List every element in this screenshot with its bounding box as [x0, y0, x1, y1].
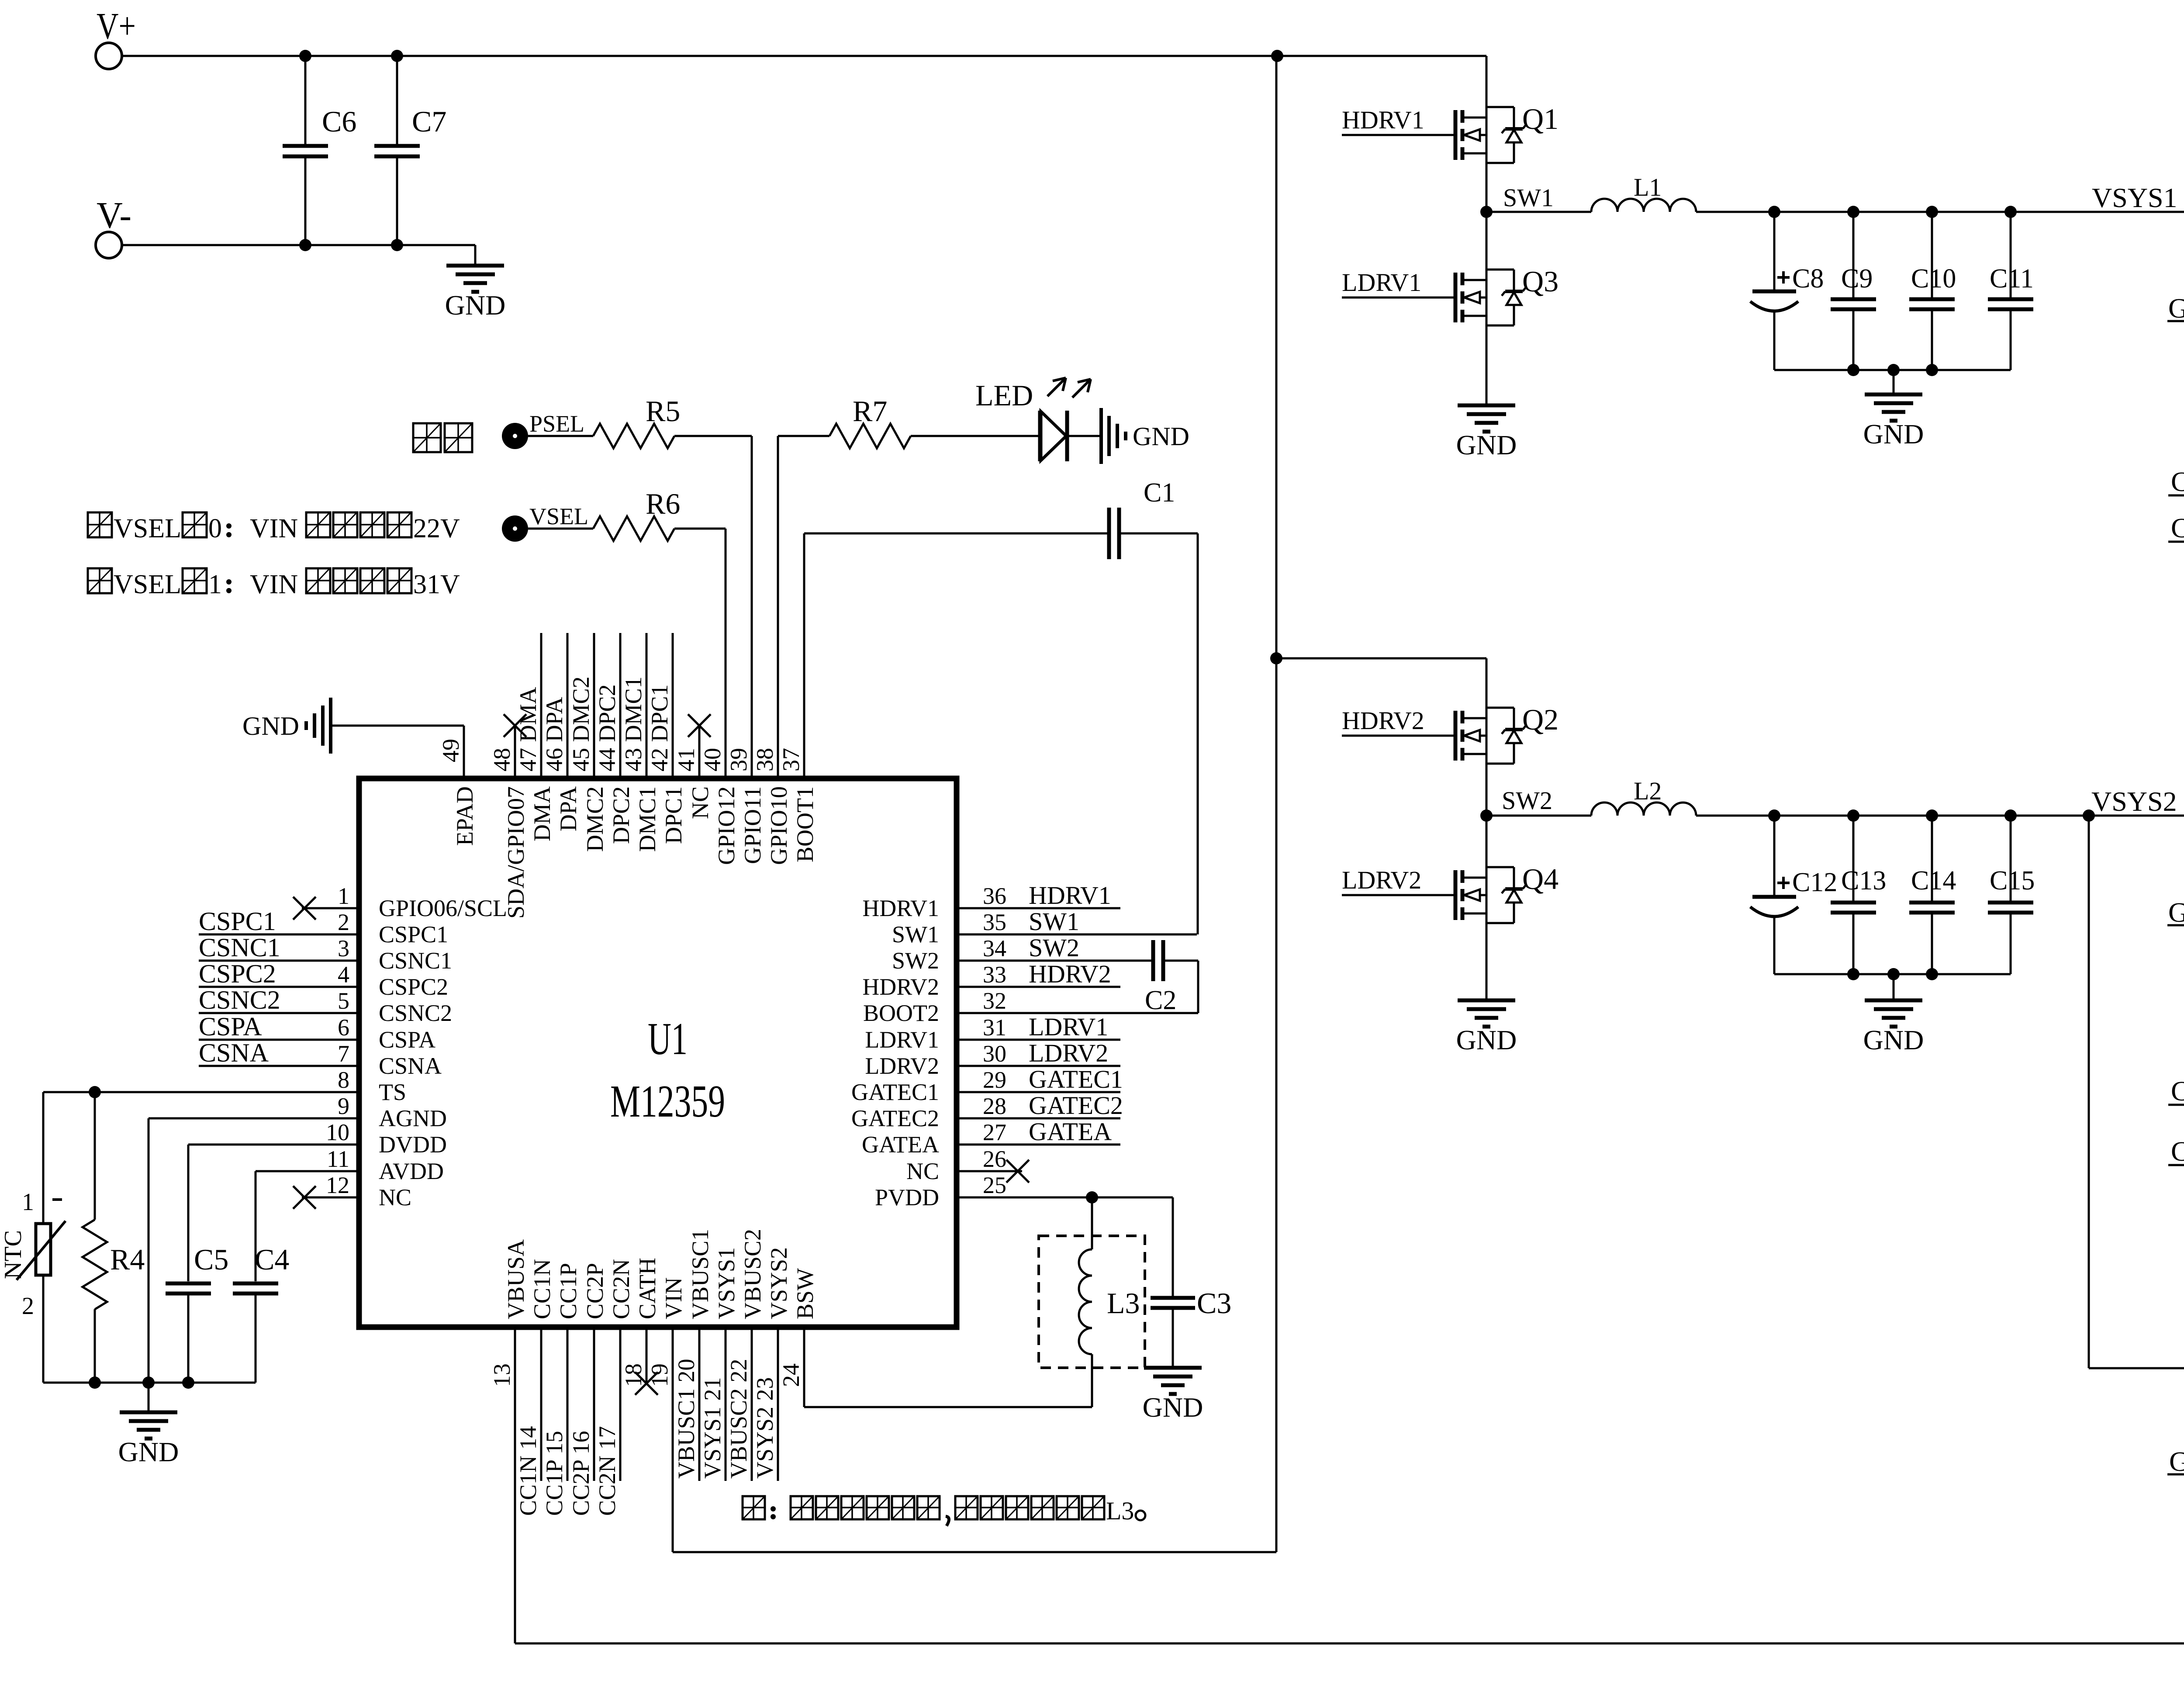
- svg-text:C11: C11: [1990, 264, 2034, 294]
- svg-text:30: 30: [983, 1041, 1006, 1067]
- svg-text:EPAD: EPAD: [452, 786, 478, 846]
- wire Q1 drain: [1486, 56, 1488, 107]
- wire VIN bus: [673, 56, 1276, 1552]
- svg-text:13: 13: [489, 1363, 515, 1387]
- net DMC1 stub (pin 43): [620, 633, 646, 776]
- svg-text:Q3: Q3: [1522, 265, 1559, 298]
- svg-text:DMA: DMA: [529, 786, 555, 841]
- wire Q4 source: [1486, 923, 1488, 1000]
- ground GND pvdd: [1143, 1368, 1203, 1423]
- pad PSEL: [502, 423, 528, 449]
- svg-text:GATEC1: GATEC1: [851, 1079, 939, 1105]
- svg-text:CC1N 14: CC1N 14: [515, 1426, 541, 1516]
- terminal V-: [96, 194, 131, 258]
- svg-text:6: 6: [338, 1014, 349, 1041]
- ground GND q3: [1456, 405, 1517, 460]
- svg-text:VIN: VIN: [250, 514, 298, 543]
- svg-text:LDRV1: LDRV1: [865, 1027, 939, 1053]
- net CC2P stub (pin 16): [568, 1330, 594, 1516]
- svg-text:VIN: VIN: [660, 1277, 687, 1319]
- U1 top pin names and EPAD: [452, 786, 818, 919]
- svg-text:43 DMC1: 43 DMC1: [620, 676, 646, 771]
- svg-text:GATEC1: GATEC1: [1029, 1065, 1123, 1093]
- wire VSYS2 rail: [1696, 809, 2184, 822]
- svg-text:GPIO11: GPIO11: [740, 786, 766, 864]
- net CSNC1: [2168, 410, 2184, 497]
- svg-text:C3: C3: [1197, 1287, 1231, 1320]
- pin 41 NC stub: [673, 714, 711, 776]
- svg-text:35: 35: [983, 909, 1006, 935]
- pin 12 NC stub: [293, 1186, 356, 1209]
- capacitor C6: [283, 56, 356, 245]
- resistor R5: [593, 394, 680, 448]
- wire VSEL: [528, 503, 593, 529]
- net CC2N stub (pin 17): [594, 1330, 620, 1516]
- net HDRV2 gate wire: [1342, 706, 1455, 736]
- wire pin 19 VIN: [646, 1330, 673, 1552]
- svg-text:C5: C5: [194, 1243, 228, 1276]
- svg-text:V-: V-: [97, 194, 131, 236]
- svg-text:40: 40: [699, 748, 726, 771]
- svg-text:VBUSC2: VBUSC2: [740, 1229, 766, 1319]
- svg-text:DPA: DPA: [555, 786, 581, 831]
- net DMA stub (pin 47): [515, 633, 541, 776]
- IC U1 (M12359): [359, 778, 957, 1327]
- svg-text:36: 36: [983, 883, 1006, 909]
- transistor Q3: [1455, 265, 1559, 325]
- svg-text:31V: 31V: [413, 570, 460, 599]
- net CSPC1 (pin 2): [199, 907, 356, 936]
- net VSYS1 label: [2092, 182, 2177, 213]
- svg-text:VSYS1 21: VSYS1 21: [699, 1377, 726, 1479]
- wire VSYS1 rail: [1696, 206, 2184, 218]
- svg-text:44 DPC2: 44 DPC2: [594, 684, 620, 771]
- svg-text:CSNC2: CSNC2: [2171, 1076, 2184, 1107]
- wire Q2 source to SW2: [1486, 764, 1488, 816]
- svg-text:U1: U1: [648, 1013, 688, 1064]
- svg-text:C9: C9: [1841, 264, 1873, 294]
- label yuliu (reserved): [413, 423, 472, 452]
- svg-text:PVDD: PVDD: [875, 1184, 939, 1210]
- note VSEL=1: [88, 568, 460, 599]
- ground GND caps1: [1863, 370, 1924, 450]
- svg-text:LDRV2: LDRV2: [1342, 866, 1421, 894]
- net CSPC1: [2168, 410, 2184, 543]
- svg-text:GND: GND: [1456, 1024, 1517, 1055]
- svg-text:3: 3: [338, 935, 349, 961]
- ground GND analog: [118, 1383, 179, 1467]
- svg-text:GND: GND: [445, 290, 506, 321]
- inductor L3 (dashed option box): [1039, 1236, 1145, 1368]
- wire pin37 to C1: [804, 533, 1108, 776]
- svg-text:SW1: SW1: [892, 921, 939, 948]
- net VSYS1 stub (pin 21): [699, 1330, 726, 1481]
- svg-text:CC1N: CC1N: [529, 1259, 555, 1319]
- svg-text:SDA/GPIO07: SDA/GPIO07: [503, 786, 529, 919]
- svg-text:49: 49: [438, 739, 464, 762]
- svg-text:GATEC2: GATEC2: [1029, 1091, 1123, 1120]
- ground GND q4: [1456, 1000, 1517, 1055]
- svg-text:7: 7: [338, 1041, 349, 1067]
- svg-text:L3: L3: [1106, 1497, 1134, 1525]
- svg-text:CSNA: CSNA: [379, 1053, 442, 1079]
- svg-text:C1: C1: [1144, 478, 1175, 508]
- wire pin 13 VBUSA: [489, 1330, 515, 1643]
- svg-text:GATEC2: GATEC2: [2168, 897, 2184, 928]
- svg-text:AVDD: AVDD: [379, 1158, 444, 1184]
- LED D1: [975, 378, 1091, 461]
- svg-text:DMC2: DMC2: [582, 786, 608, 852]
- svg-text:C15: C15: [1990, 866, 2035, 896]
- inductor L1: [1591, 173, 1696, 212]
- svg-text:NC: NC: [906, 1158, 939, 1184]
- svg-text:10: 10: [326, 1119, 349, 1145]
- svg-text:26: 26: [983, 1146, 1006, 1172]
- svg-text:CSNC1: CSNC1: [379, 948, 452, 974]
- svg-text:CSNA: CSNA: [199, 1038, 269, 1067]
- transistor Q1: [1455, 102, 1559, 163]
- net VBUSC1 stub (pin 20): [673, 1330, 699, 1481]
- capacitor C14: [1909, 816, 1956, 974]
- svg-text:VBUSC1: VBUSC1: [687, 1229, 713, 1319]
- svg-text:PSEL: PSEL: [529, 411, 584, 437]
- svg-text:BOOT1: BOOT1: [792, 786, 818, 862]
- svg-text:VIN: VIN: [250, 570, 298, 599]
- svg-text:VBUSA: VBUSA: [503, 1239, 529, 1319]
- svg-text:GND: GND: [1133, 422, 1189, 451]
- net CSNC2: [2168, 1013, 2184, 1107]
- svg-text:C12: C12: [1792, 868, 1837, 897]
- net CSNC2 (pin 5): [199, 986, 356, 1014]
- svg-text:SW1: SW1: [1029, 907, 1079, 936]
- pad VSEL: [502, 515, 528, 542]
- svg-text:SW2: SW2: [892, 948, 939, 974]
- svg-text:CSPC1: CSPC1: [379, 921, 448, 948]
- svg-text:TS: TS: [379, 1079, 406, 1105]
- net CSNC1 (pin 3): [199, 933, 356, 962]
- wire Q3 source: [1486, 325, 1488, 405]
- svg-text:GND: GND: [1863, 418, 1924, 450]
- note VSEL=0: [88, 512, 460, 543]
- transistor Q4: [1455, 862, 1559, 923]
- svg-text:GND: GND: [1143, 1392, 1203, 1423]
- svg-text:46 DPA: 46 DPA: [541, 697, 567, 771]
- svg-text:R7: R7: [853, 394, 887, 428]
- wire analog gnd rail: [43, 1376, 256, 1389]
- svg-text:GATEA: GATEA: [1029, 1117, 1112, 1146]
- wire VBUSA bus: [515, 1643, 2184, 1645]
- svg-text:8: 8: [338, 1067, 349, 1093]
- wire R7 to LED: [911, 435, 1040, 437]
- pin 38 number: [752, 748, 778, 771]
- svg-text:BSW: BSW: [792, 1268, 818, 1319]
- svg-text:CSNC1: CSNC1: [2171, 466, 2184, 497]
- net CSPA (pin 6): [199, 1012, 356, 1041]
- svg-text:47 DMA: 47 DMA: [515, 687, 541, 771]
- capacitor C3: [1151, 1197, 1231, 1368]
- wire pin 24 BSW: [778, 1330, 804, 1407]
- svg-text:R4: R4: [110, 1243, 145, 1276]
- svg-text:BOOT2: BOOT2: [863, 1000, 939, 1026]
- svg-text:4: 4: [338, 961, 349, 988]
- net CC1N stub (pin 14): [515, 1330, 541, 1516]
- capacitor C15: [1988, 816, 2035, 974]
- svg-text:VSEL: VSEL: [529, 503, 588, 529]
- svg-text:C13: C13: [1841, 866, 1886, 896]
- node SW2: [1480, 786, 1552, 822]
- svg-text:VSYS1: VSYS1: [2092, 182, 2177, 213]
- svg-text:LDRV2: LDRV2: [1029, 1039, 1108, 1067]
- pin 18 CATH stub: [620, 1330, 658, 1395]
- svg-text:LDRV1: LDRV1: [1029, 1013, 1108, 1041]
- capacitor C1: [1109, 478, 1175, 559]
- svg-text:41: 41: [673, 748, 699, 771]
- net LDRV1 stub (pin 31): [959, 1013, 1120, 1041]
- wire VSYS2 to Q7: [2089, 816, 2184, 1368]
- svg-text:VSEL: VSEL: [114, 570, 181, 599]
- svg-text:Q1: Q1: [1522, 102, 1559, 135]
- net LDRV2 stub (pin 30): [959, 1039, 1120, 1067]
- svg-text:2: 2: [22, 1293, 34, 1320]
- pin 37 number: [778, 748, 804, 771]
- svg-text:R5: R5: [646, 394, 680, 428]
- svg-text:CSPC2: CSPC2: [2171, 1136, 2184, 1167]
- resistor R7: [829, 394, 911, 448]
- svg-text:1: 1: [338, 883, 349, 909]
- pin 40 number: [699, 748, 726, 771]
- svg-text:31: 31: [983, 1014, 1006, 1041]
- svg-text:1: 1: [208, 570, 222, 599]
- U1 bottom pin names: [503, 1229, 818, 1319]
- svg-text:Q2: Q2: [1522, 703, 1559, 736]
- svg-text:11: 11: [327, 1146, 349, 1172]
- svg-text:1: 1: [22, 1189, 34, 1216]
- svg-text:VBUSC1 20: VBUSC1 20: [673, 1359, 699, 1479]
- net GATEC1 stub (pin 29): [959, 1065, 1123, 1093]
- svg-text:42 DPC1: 42 DPC1: [646, 684, 673, 771]
- node stage2 input: [1270, 652, 1486, 664]
- svg-text:CC1P 15: CC1P 15: [541, 1431, 567, 1516]
- pin 11 AVDD wire: [256, 1171, 356, 1281]
- svg-text:AGND: AGND: [379, 1105, 447, 1131]
- svg-text:22V: 22V: [413, 514, 460, 543]
- svg-text:L2: L2: [1634, 777, 1662, 805]
- svg-text:18: 18: [620, 1363, 646, 1387]
- wire PVDD to L3: [1091, 1197, 1093, 1249]
- U1 right pin numbers and names: [851, 883, 1006, 1210]
- svg-text:27: 27: [983, 1119, 1006, 1145]
- svg-text:VSYS2 23: VSYS2 23: [752, 1377, 778, 1479]
- svg-text:CSPA: CSPA: [199, 1012, 262, 1041]
- net DMC2 stub (pin 45): [568, 633, 594, 776]
- svg-text:33: 33: [983, 961, 1006, 988]
- pin 9 AGND wire: [149, 1118, 356, 1383]
- svg-text:CSPA: CSPA: [379, 1027, 435, 1053]
- capacitor C9: [1831, 212, 1876, 370]
- wire V+ rail: [122, 55, 1486, 57]
- pin 26 NC stub: [959, 1160, 1029, 1183]
- svg-text:HDRV2: HDRV2: [862, 974, 939, 1000]
- svg-text:38: 38: [752, 748, 778, 771]
- wire Q2 drain: [1486, 658, 1488, 708]
- capacitor C13: [1831, 816, 1886, 974]
- ground GND led (tick): [1101, 408, 1189, 464]
- svg-text:GPIO06/SCL: GPIO06/SCL: [379, 895, 507, 921]
- svg-text:C6: C6: [322, 105, 356, 138]
- wire cap gnd rail 1: [1774, 364, 2011, 376]
- net HDRV1 gate wire: [1342, 106, 1455, 135]
- pin 39 number: [726, 748, 752, 771]
- capacitor C4: [233, 1243, 289, 1383]
- wire R5 to pin39: [674, 436, 752, 776]
- svg-text:12: 12: [326, 1172, 349, 1198]
- wire TS drop: [42, 1092, 45, 1210]
- net GATEC2 stub (pin 28): [959, 1091, 1123, 1120]
- svg-text:CSNC2: CSNC2: [379, 1000, 452, 1026]
- net LDRV1 gate wire: [1342, 268, 1455, 297]
- wire LED to gnd: [1067, 435, 1099, 437]
- svg-text:LDRV1: LDRV1: [1342, 268, 1421, 297]
- svg-text:VSYS2: VSYS2: [766, 1247, 792, 1319]
- svg-text:CATH: CATH: [634, 1258, 660, 1319]
- net CSPC2: [2168, 1013, 2184, 1167]
- svg-text:C10: C10: [1911, 264, 1956, 294]
- svg-text:GPIO12: GPIO12: [713, 786, 740, 865]
- svg-text:24: 24: [778, 1363, 804, 1387]
- net VSYS2 label: [2091, 786, 2177, 817]
- svg-text:C7: C7: [412, 105, 446, 138]
- pin 1 NC stub: [293, 897, 356, 920]
- wire SW1 to L1: [1486, 211, 1591, 213]
- svg-text:VSYS2: VSYS2: [2091, 786, 2177, 817]
- wire V- rail: [122, 239, 475, 251]
- svg-text:GATEC1: GATEC1: [2168, 293, 2184, 324]
- pin 48 NC stub: [489, 714, 526, 776]
- svg-text:NTC: NTC: [0, 1230, 27, 1279]
- svg-text:GND: GND: [1456, 429, 1517, 460]
- svg-text:CC2N 17: CC2N 17: [594, 1426, 620, 1516]
- svg-text:29: 29: [983, 1067, 1006, 1093]
- transistor Q2: [1455, 703, 1559, 764]
- svg-text:CSPC1: CSPC1: [199, 907, 276, 936]
- node V+ junction dots: [299, 50, 1283, 62]
- wire pin38 to R7: [778, 436, 829, 776]
- svg-text:2: 2: [338, 909, 349, 935]
- net HDRV1 stub (pin 36): [959, 881, 1120, 910]
- svg-text:V+: V+: [97, 5, 136, 47]
- svg-text:CC2P: CC2P: [582, 1263, 608, 1319]
- terminal V+: [96, 5, 136, 69]
- svg-text:0: 0: [208, 514, 222, 543]
- svg-text:DPC1: DPC1: [660, 786, 687, 844]
- wire pin 25 PVDD: [959, 1191, 1173, 1204]
- resistor R6: [593, 487, 680, 541]
- svg-text:CSPC2: CSPC2: [379, 974, 448, 1000]
- U1 left pin numbers and names: [326, 883, 507, 1210]
- svg-text:GATEA: GATEA: [862, 1131, 939, 1158]
- capacitor C5: [166, 1243, 228, 1383]
- svg-text:SW1: SW1: [1503, 183, 1554, 212]
- svg-text:R6: R6: [646, 487, 680, 520]
- svg-text:VSEL: VSEL: [114, 514, 181, 543]
- svg-text:DMC1: DMC1: [634, 786, 660, 852]
- net GATEC1 gate wire: [2167, 246, 2184, 324]
- svg-text:CSPC1: CSPC1: [2171, 512, 2184, 543]
- svg-text:DPC2: DPC2: [608, 786, 634, 844]
- svg-text:L1: L1: [1634, 173, 1662, 201]
- svg-text:5: 5: [338, 988, 349, 1014]
- capacitor C8: [1750, 212, 1824, 370]
- svg-text:NC: NC: [379, 1184, 411, 1210]
- svg-text:CSPC2: CSPC2: [199, 959, 276, 988]
- svg-text:CC2N: CC2N: [608, 1259, 634, 1319]
- wire pin 32 BOOT2: [959, 1012, 1198, 1014]
- net CC1P stub (pin 15): [541, 1330, 567, 1516]
- svg-text:VBUSC2 22: VBUSC2 22: [726, 1359, 752, 1479]
- pin 8 TS wire: [43, 1086, 356, 1098]
- svg-text:HDRV2: HDRV2: [1342, 706, 1424, 735]
- svg-text:48: 48: [489, 748, 515, 771]
- svg-text:GND: GND: [118, 1436, 179, 1467]
- wire L3 to BSW: [804, 1354, 1092, 1407]
- node SW1: [1480, 183, 1554, 218]
- net GATEC2 gate wire: [2167, 849, 2184, 928]
- ground GND input: [445, 245, 506, 321]
- wire PSEL: [528, 411, 593, 437]
- svg-text:CC1P: CC1P: [555, 1263, 581, 1319]
- svg-text:34: 34: [983, 935, 1006, 961]
- svg-text:SW2: SW2: [1502, 786, 1552, 815]
- wire C1 to SW1 pin: [1120, 533, 1198, 934]
- pin 10 DVDD wire: [188, 1145, 356, 1281]
- ground GND caps2: [1863, 974, 1924, 1055]
- svg-text:CSNC2: CSNC2: [199, 986, 280, 1014]
- svg-text:28: 28: [983, 1093, 1006, 1119]
- capacitor C12: [1750, 816, 1837, 974]
- net SW1 stub (pin 35): [959, 907, 1197, 936]
- svg-text:DVDD: DVDD: [379, 1131, 447, 1158]
- svg-text:HDRV2: HDRV2: [1029, 960, 1111, 988]
- svg-text:C14: C14: [1911, 866, 1956, 896]
- svg-text:39: 39: [726, 748, 752, 771]
- svg-text:C4: C4: [255, 1243, 289, 1276]
- svg-text:HDRV1: HDRV1: [1029, 881, 1111, 910]
- svg-text:C2: C2: [1145, 986, 1176, 1015]
- capacitor C2: [1145, 940, 1198, 1015]
- svg-text:Q4: Q4: [1522, 862, 1559, 896]
- svg-text:37: 37: [778, 748, 804, 771]
- svg-text:GND: GND: [1863, 1024, 1924, 1055]
- resistor R4: [83, 1092, 145, 1383]
- wire Q4 drain: [1486, 816, 1488, 867]
- svg-text:M12359: M12359: [610, 1076, 725, 1127]
- ground GND epad (tick): [242, 698, 464, 776]
- note about L3: [743, 1496, 1145, 1526]
- wire R6 to pin40: [674, 529, 726, 776]
- inductor L2: [1591, 777, 1696, 816]
- net GATEA gate wire: [2167, 1402, 2184, 1477]
- svg-text:19: 19: [646, 1363, 673, 1387]
- net CSNA (pin 7): [199, 1038, 356, 1067]
- svg-text:32: 32: [983, 988, 1006, 1014]
- svg-text:9: 9: [338, 1093, 349, 1119]
- svg-text:SW2: SW2: [1029, 934, 1079, 962]
- svg-text:CC2P 16: CC2P 16: [568, 1431, 594, 1516]
- net LDRV2 gate wire: [1342, 866, 1455, 895]
- svg-text:C8: C8: [1792, 264, 1824, 294]
- wire SW2 to L2: [1486, 815, 1591, 817]
- svg-text:45 DMC2: 45 DMC2: [568, 676, 594, 771]
